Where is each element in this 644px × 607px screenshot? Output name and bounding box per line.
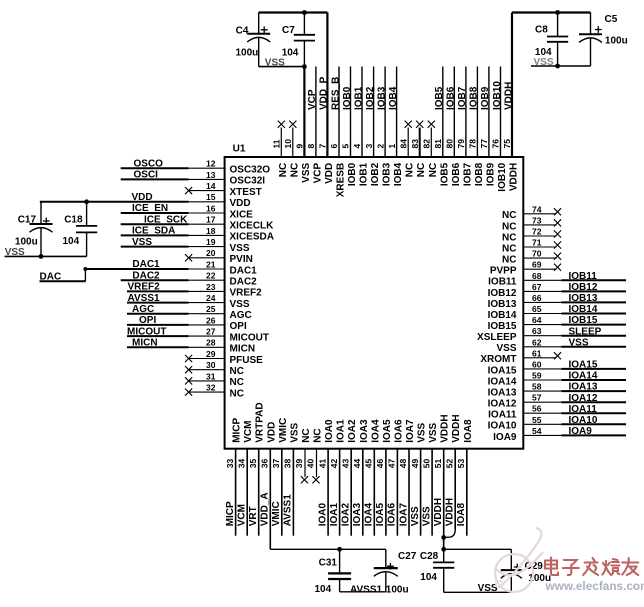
svg-text:VMIC: VMIC xyxy=(271,501,282,526)
svg-text:VDDH: VDDH xyxy=(451,414,462,442)
svg-text:ICE_SCK: ICE_SCK xyxy=(144,214,188,225)
svg-text:71: 71 xyxy=(532,238,542,248)
svg-text:IOB3: IOB3 xyxy=(376,86,387,110)
watermark text dian zi fa shao you (drawn as paths) xyxy=(545,558,638,576)
svg-text:100u: 100u xyxy=(15,237,38,248)
svg-text:VCP: VCP xyxy=(307,89,318,110)
pin 75 VDDH (top) wire xyxy=(502,13,519,192)
svg-text:AGC: AGC xyxy=(132,304,154,315)
pin 37 VMIC (bottom) wire xyxy=(271,418,289,536)
capacitor C5 xyxy=(579,14,618,66)
svg-text:44: 44 xyxy=(352,458,362,468)
C31 value 104 xyxy=(315,584,332,595)
svg-text:54: 54 xyxy=(532,426,542,436)
svg-text:6: 6 xyxy=(329,144,339,149)
svg-text:C31: C31 xyxy=(319,558,338,569)
svg-text:58: 58 xyxy=(532,382,542,392)
pin 43 IOA2 (bottom) wire xyxy=(340,419,358,536)
IC U1 chip body outline xyxy=(225,157,524,449)
pin 11 NC (top) wire xyxy=(272,121,289,178)
pin 25 AGC (left) wire xyxy=(127,304,252,321)
svg-text:IOB4: IOB4 xyxy=(393,162,404,186)
svg-text:56: 56 xyxy=(532,404,542,414)
svg-text:IOA15: IOA15 xyxy=(488,365,517,376)
svg-text:ICE_EN: ICE_EN xyxy=(132,203,168,214)
svg-text:VSS: VSS xyxy=(230,243,250,254)
pin 39 NC (bottom) wire xyxy=(294,428,312,483)
svg-text:72: 72 xyxy=(532,227,542,237)
svg-text:61: 61 xyxy=(532,348,542,358)
pin 71 NC (right) wire xyxy=(502,238,561,255)
pin 19 VSS (left) wire xyxy=(121,237,250,254)
svg-text:NC: NC xyxy=(313,428,324,442)
svg-text:IOB15: IOB15 xyxy=(488,321,517,332)
svg-text:IOA11: IOA11 xyxy=(488,410,517,421)
svg-text:IOA2: IOA2 xyxy=(341,503,352,527)
pin 4 IOB1 (top) wire xyxy=(352,67,369,187)
svg-text:NC: NC xyxy=(301,428,312,442)
svg-text:IOB11: IOB11 xyxy=(488,277,517,288)
capacitor C17 xyxy=(18,202,53,257)
svg-text:34: 34 xyxy=(236,458,246,468)
svg-text:4: 4 xyxy=(352,144,362,149)
pin 38 VSS (bottom) wire xyxy=(283,422,301,535)
svg-text:VDD: VDD xyxy=(266,422,277,443)
svg-text:VDDH: VDDH xyxy=(503,82,514,110)
svg-text:VSS: VSS xyxy=(417,422,428,442)
wire bottom rail VSS (C28/C29) xyxy=(444,591,512,593)
ground net label VSS (left) xyxy=(5,247,25,258)
svg-text:24: 24 xyxy=(206,293,216,303)
pin 77 IOB9 (top) wire xyxy=(479,67,496,187)
svg-text:IOA7: IOA7 xyxy=(398,503,409,527)
svg-text:VCM: VCM xyxy=(237,504,248,526)
svg-text:IOB13: IOB13 xyxy=(488,299,517,310)
svg-text:70: 70 xyxy=(532,249,542,259)
svg-text:47: 47 xyxy=(387,458,397,468)
pin 79 IOB7 (top) wire xyxy=(456,67,473,187)
svg-text:78: 78 xyxy=(468,139,478,149)
svg-text:VDD: VDD xyxy=(230,198,251,209)
pin 69 PVPP (right) wire xyxy=(490,260,561,277)
svg-text:NC: NC xyxy=(502,243,516,254)
svg-text:80: 80 xyxy=(445,139,455,149)
pin 2 IOB3 (top) wire xyxy=(375,67,392,187)
svg-text:46: 46 xyxy=(375,458,385,468)
svg-text:25: 25 xyxy=(206,304,216,314)
svg-text:3: 3 xyxy=(364,144,374,149)
svg-text:9: 9 xyxy=(295,144,305,149)
svg-text:100u: 100u xyxy=(236,48,259,59)
pin 80 IOB6 (top) wire xyxy=(445,67,462,187)
svg-text:IOB4: IOB4 xyxy=(388,86,399,110)
svg-text:33: 33 xyxy=(225,458,235,468)
pin 1 IOB4 (top) wire xyxy=(387,67,404,187)
svg-text:5: 5 xyxy=(341,144,351,149)
ground net label VSS (top left) xyxy=(265,58,285,69)
svg-text:MICP: MICP xyxy=(225,501,236,526)
svg-text:IOB14: IOB14 xyxy=(569,304,598,315)
svg-text:60: 60 xyxy=(532,359,542,369)
svg-text:C7: C7 xyxy=(282,25,295,36)
svg-text:IOA7: IOA7 xyxy=(405,419,416,443)
svg-text:NC: NC xyxy=(230,366,244,377)
svg-text:IOA4: IOA4 xyxy=(370,419,381,443)
svg-text:53: 53 xyxy=(456,458,466,468)
pin 5 IOB0 (top) wire xyxy=(341,67,358,187)
pin 13 OSC32I (left) wire xyxy=(121,170,266,187)
svg-text:IOA6: IOA6 xyxy=(393,419,404,443)
svg-text:39: 39 xyxy=(294,458,304,468)
svg-text:IOA5: IOA5 xyxy=(375,503,386,527)
pin 17 XICECLK (left) wire xyxy=(121,214,274,231)
svg-text:1: 1 xyxy=(387,144,397,149)
svg-text:69: 69 xyxy=(532,260,542,270)
svg-text:31: 31 xyxy=(206,371,216,381)
svg-text:XROMT: XROMT xyxy=(480,354,516,365)
svg-text:VSS: VSS xyxy=(410,506,421,526)
svg-text:XRESB: XRESB xyxy=(336,163,347,197)
svg-text:IOB12: IOB12 xyxy=(569,282,598,293)
svg-text:66: 66 xyxy=(532,293,542,303)
node junction C8 top on rail xyxy=(555,10,560,15)
pin 48 IOA7 (bottom) wire xyxy=(398,419,416,536)
svg-text:IOA4: IOA4 xyxy=(364,503,375,527)
svg-text:IOB14: IOB14 xyxy=(488,310,517,321)
pin 63 XSLEEP (right) wire xyxy=(477,326,626,343)
svg-text:41: 41 xyxy=(317,458,327,468)
svg-text:76: 76 xyxy=(491,139,501,149)
svg-text:IOB9: IOB9 xyxy=(480,86,491,110)
svg-text:IOA2: IOA2 xyxy=(347,419,358,443)
svg-text:49: 49 xyxy=(410,458,420,468)
svg-text:82: 82 xyxy=(422,139,432,149)
svg-text:NC: NC xyxy=(502,210,516,221)
pin 55 IOA10 (right) wire xyxy=(488,415,626,432)
svg-text:74: 74 xyxy=(532,204,542,214)
svg-text:AVSS1: AVSS1 xyxy=(350,584,382,595)
C5 value 100u xyxy=(605,36,628,47)
svg-text:OPI: OPI xyxy=(139,315,156,326)
svg-text:IOB8: IOB8 xyxy=(474,162,485,186)
svg-text:C5: C5 xyxy=(605,14,618,25)
svg-text:VCM: VCM xyxy=(243,421,254,443)
svg-text:14: 14 xyxy=(206,181,216,191)
svg-text:MICOUT: MICOUT xyxy=(230,332,269,343)
pin 34 VCM (bottom) wire xyxy=(236,421,254,536)
svg-text:AGC: AGC xyxy=(230,310,252,321)
svg-text:VSS: VSS xyxy=(569,337,589,348)
svg-text:38: 38 xyxy=(283,458,293,468)
svg-text:67: 67 xyxy=(532,282,542,292)
wire bottom rail VSS (C8/C5) xyxy=(531,64,591,69)
svg-text:VSS: VSS xyxy=(132,237,152,248)
svg-text:IOB2: IOB2 xyxy=(370,162,381,186)
pin 12 OSC32O (left) wire xyxy=(121,158,271,175)
svg-text:NC: NC xyxy=(428,163,439,177)
svg-text:104: 104 xyxy=(315,584,332,595)
pin 14 XTEST (left) wire xyxy=(185,181,262,198)
pin 24 VSS (left) wire xyxy=(127,293,250,310)
svg-text:65: 65 xyxy=(532,304,542,314)
svg-text:64: 64 xyxy=(532,315,542,325)
svg-text:PFUSE: PFUSE xyxy=(230,355,264,366)
svg-text:18: 18 xyxy=(206,226,216,236)
svg-text:IOB7: IOB7 xyxy=(457,86,468,110)
svg-text:OSCI: OSCI xyxy=(134,170,159,181)
pin 27 MICOUT (left) wire xyxy=(127,326,269,343)
pin 47 IOA6 (bottom) wire xyxy=(387,419,405,536)
svg-text:VDDH: VDDH xyxy=(445,498,456,526)
pin 41 IOA0 (bottom) wire xyxy=(317,419,335,536)
svg-text:VSS: VSS xyxy=(289,422,300,442)
svg-text:42: 42 xyxy=(329,458,339,468)
svg-text:VSS: VSS xyxy=(496,343,516,354)
svg-text:100u: 100u xyxy=(605,36,628,47)
svg-text:12: 12 xyxy=(206,159,216,169)
pin 61 XROMT (right) wire xyxy=(480,348,561,365)
svg-text:VSS: VSS xyxy=(5,247,25,258)
pin 32 NC (left) wire xyxy=(185,383,244,400)
svg-text:IOA9: IOA9 xyxy=(569,426,593,437)
svg-text:63: 63 xyxy=(532,326,542,336)
svg-text:IOB5: IOB5 xyxy=(439,162,450,186)
svg-text:IOA10: IOA10 xyxy=(569,415,598,426)
svg-text:37: 37 xyxy=(271,458,281,468)
capacitor C7 xyxy=(282,13,315,67)
svg-text:22: 22 xyxy=(206,271,216,281)
svg-text:19: 19 xyxy=(206,237,216,247)
pin 18 XICESDA (left) wire xyxy=(121,226,274,243)
pin 20 PVIN (left) wire xyxy=(185,248,253,265)
svg-text:57: 57 xyxy=(532,393,542,403)
pin 45 IOA4 (bottom) wire xyxy=(364,419,382,536)
svg-text:IOA0: IOA0 xyxy=(317,503,328,527)
ground net label VSS (top right) xyxy=(534,57,554,68)
svg-text:IOA3: IOA3 xyxy=(359,419,370,443)
pin 23 VREF2 (left) wire xyxy=(127,282,262,299)
svg-text:PVIN: PVIN xyxy=(230,254,253,265)
pin 3 IOB2 (top) wire xyxy=(364,67,381,187)
C8 value 104 xyxy=(535,47,552,58)
svg-text:IOB12: IOB12 xyxy=(488,288,517,299)
svg-text:DAC2: DAC2 xyxy=(230,277,258,288)
pin 82 NC (top) wire xyxy=(422,121,439,178)
svg-text:MICP: MICP xyxy=(232,417,243,442)
svg-text:62: 62 xyxy=(532,337,542,347)
pin 29 PFUSE (left) wire xyxy=(185,349,263,366)
svg-text:81: 81 xyxy=(433,139,443,149)
svg-text:SLEEP: SLEEP xyxy=(569,326,602,337)
pin 73 NC (right) wire xyxy=(502,215,561,232)
svg-text:IOB11: IOB11 xyxy=(569,271,598,282)
svg-text:IOB9: IOB9 xyxy=(485,162,496,186)
svg-text:www.elecfans.com: www.elecfans.com xyxy=(545,579,644,593)
svg-text:DAC: DAC xyxy=(40,272,62,283)
svg-text:NC: NC xyxy=(278,163,289,177)
svg-text:VDD_P: VDD_P xyxy=(319,76,330,110)
svg-text:VMIC: VMIC xyxy=(278,418,289,443)
svg-text:ICE_SDA: ICE_SDA xyxy=(132,226,175,237)
svg-text:IOB7: IOB7 xyxy=(462,162,473,186)
pin 78 IOB8 (top) wire xyxy=(468,67,485,187)
svg-text:NC: NC xyxy=(289,163,300,177)
pin 51 VDDH (bottom) wire xyxy=(433,414,451,549)
capacitor C18 xyxy=(64,202,97,257)
wire bottom rail VSS (C17/C18) xyxy=(5,254,87,259)
svg-text:IOB10: IOB10 xyxy=(492,81,503,110)
svg-text:IOB1: IOB1 xyxy=(353,86,364,110)
svg-text:VSS: VSS xyxy=(230,299,250,310)
capacitor C8 xyxy=(535,13,568,67)
pin 52 VDDH (bottom) wire xyxy=(444,414,462,537)
svg-text:IOA0: IOA0 xyxy=(324,419,335,443)
svg-text:MICN: MICN xyxy=(230,344,256,355)
svg-text:NC: NC xyxy=(416,163,427,177)
C17 value 100u xyxy=(15,237,38,248)
svg-text:IOA13: IOA13 xyxy=(488,388,517,399)
svg-text:C18: C18 xyxy=(64,215,83,226)
svg-text:75: 75 xyxy=(502,139,512,149)
svg-text:83: 83 xyxy=(410,139,420,149)
svg-text:U1: U1 xyxy=(233,143,246,154)
pin 72 NC (right) wire xyxy=(502,227,561,244)
node junction pin52 joins pin51 VDDH xyxy=(441,535,446,540)
svg-text:IOB0: IOB0 xyxy=(342,86,353,110)
svg-text:VSS: VSS xyxy=(301,162,312,182)
C30 value 100u xyxy=(386,584,409,595)
svg-text:IOA9: IOA9 xyxy=(493,432,517,443)
svg-text:20: 20 xyxy=(206,248,216,258)
svg-text:NC: NC xyxy=(502,255,516,266)
pin 16 XICE (left) wire xyxy=(121,203,253,220)
pin 10 NC (top) wire xyxy=(283,121,300,178)
wire AVSS1 branch rail from pin36 xyxy=(270,548,386,550)
svg-text:IOB5: IOB5 xyxy=(434,86,445,110)
svg-text:35: 35 xyxy=(248,458,258,468)
svg-text:26: 26 xyxy=(206,315,216,325)
svg-text:VRTPAD: VRTPAD xyxy=(255,402,266,442)
svg-text:IOA11: IOA11 xyxy=(569,404,598,415)
svg-text:OSC32I: OSC32I xyxy=(230,176,266,187)
svg-text:NC: NC xyxy=(502,221,516,232)
svg-text:73: 73 xyxy=(532,215,542,225)
pin 58 IOA13 (right) wire xyxy=(488,382,626,399)
svg-text:IOA6: IOA6 xyxy=(387,503,398,527)
svg-text:84: 84 xyxy=(398,139,408,149)
ground net label VSS (bottom) xyxy=(478,583,498,594)
svg-text:C28: C28 xyxy=(420,551,439,562)
svg-text:7: 7 xyxy=(318,144,328,149)
pin 49 VSS (bottom) wire xyxy=(410,422,428,535)
pin 42 IOA1 (bottom) wire xyxy=(329,419,347,536)
svg-text:68: 68 xyxy=(532,271,542,281)
svg-text:AVSS1: AVSS1 xyxy=(283,494,294,526)
svg-text:OSC32O: OSC32O xyxy=(230,165,271,176)
svg-text:C8: C8 xyxy=(535,25,548,36)
svg-text:13: 13 xyxy=(206,170,216,180)
svg-text:VSS: VSS xyxy=(428,422,439,442)
svg-text:IOA1: IOA1 xyxy=(336,419,347,443)
svg-text:51: 51 xyxy=(433,458,443,468)
C29 value 100u xyxy=(528,573,551,584)
pin 21 DAC1 (left) wire xyxy=(85,259,257,276)
pin 60 IOA15 (right) wire xyxy=(488,359,626,376)
svg-text:VREF2: VREF2 xyxy=(230,288,263,299)
svg-text:NC: NC xyxy=(502,232,516,243)
svg-text:NC: NC xyxy=(405,163,416,177)
svg-text:IOB1: IOB1 xyxy=(359,162,370,186)
svg-text:IOA1: IOA1 xyxy=(329,503,340,527)
capacitor C31 xyxy=(319,549,352,592)
pin 15 VDD (left) wire xyxy=(40,192,251,209)
svg-text:29: 29 xyxy=(206,349,216,359)
capacitor C28 xyxy=(433,549,454,592)
net label DAC with jog wire to DAC1 xyxy=(40,267,88,283)
svg-text:IOA12: IOA12 xyxy=(488,399,517,410)
svg-text:VSS: VSS xyxy=(534,57,554,68)
svg-text:XICESDA: XICESDA xyxy=(230,232,274,243)
watermark url text xyxy=(545,579,644,593)
svg-text:17: 17 xyxy=(206,215,216,225)
svg-text:DAC1: DAC1 xyxy=(132,259,160,270)
svg-text:NC: NC xyxy=(230,388,244,399)
svg-text:79: 79 xyxy=(456,139,466,149)
svg-text:XTEST: XTEST xyxy=(230,187,262,198)
svg-text:VDDH: VDDH xyxy=(509,163,520,191)
wire VDDH rail to C29 branch xyxy=(444,548,512,550)
pin 83 NC (top) wire xyxy=(410,121,427,178)
svg-text:IOB15: IOB15 xyxy=(569,315,598,326)
U1 reference designator xyxy=(233,143,246,154)
svg-text:15: 15 xyxy=(206,192,216,202)
pin 35 VRTPAD (bottom) wire xyxy=(248,402,266,535)
node junction C31 top xyxy=(337,547,342,552)
C7 value 104 xyxy=(282,48,299,59)
svg-text:52: 52 xyxy=(444,458,454,468)
svg-text:OPI: OPI xyxy=(230,321,247,332)
wire bottom rail VSS (C4/C7) xyxy=(259,64,307,69)
svg-text:C17: C17 xyxy=(18,215,37,226)
svg-text:MICOUT: MICOUT xyxy=(127,326,166,337)
node junction C18 top on VDD rail xyxy=(84,199,89,204)
svg-text:IOB10: IOB10 xyxy=(497,162,508,191)
wire VDDH down to rail xyxy=(441,537,446,551)
svg-text:48: 48 xyxy=(398,458,408,468)
pin 54 IOA9 (right) wire xyxy=(493,426,626,443)
pin 7 VDD (top) wire xyxy=(318,13,335,184)
svg-text:DAC2: DAC2 xyxy=(132,270,160,281)
svg-text:IOB13: IOB13 xyxy=(569,293,598,304)
svg-text:59: 59 xyxy=(532,371,542,381)
svg-text:NC: NC xyxy=(230,377,244,388)
svg-text:XSLEEP: XSLEEP xyxy=(477,332,517,343)
svg-text:PVPP: PVPP xyxy=(490,266,517,277)
svg-text:RES_B: RES_B xyxy=(330,77,341,110)
svg-text:VSS: VSS xyxy=(478,583,498,594)
svg-text:IOA14: IOA14 xyxy=(569,371,598,382)
C4 value 100u xyxy=(236,48,259,59)
svg-text:77: 77 xyxy=(479,139,489,149)
svg-text:28: 28 xyxy=(206,338,216,348)
svg-text:IOA5: IOA5 xyxy=(382,419,393,443)
svg-text:IOA8: IOA8 xyxy=(463,419,474,443)
svg-text:10: 10 xyxy=(283,139,293,149)
svg-text:VREF2: VREF2 xyxy=(128,282,161,293)
node junction C7 top on rail xyxy=(302,10,307,15)
wire top rail VDDH net (C8/C5 top) xyxy=(512,13,591,35)
svg-text:IOA14: IOA14 xyxy=(488,376,517,387)
